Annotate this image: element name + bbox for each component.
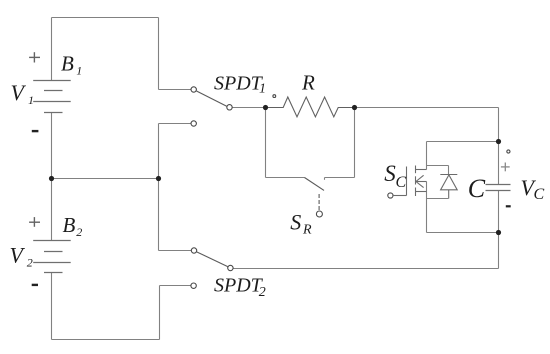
wire SR loop right vertical — [354, 108, 356, 178]
switch SR actuator dashed link — [318, 194, 320, 210]
battery B2 — [33, 241, 70, 273]
wire diode top drop — [448, 166, 450, 175]
diode anode stem — [448, 190, 450, 199]
wire B1 positive lead — [51, 18, 53, 81]
wire capacitor bottom lead — [498, 191, 500, 233]
wire SR loop left horizontal — [266, 177, 305, 179]
switch SPDT1 — [191, 87, 232, 126]
svg-text:C: C — [396, 174, 407, 191]
wire SR contact tick — [324, 178, 326, 180]
svg-text:1: 1 — [28, 93, 34, 107]
svg-text:C: C — [468, 174, 486, 203]
svg-text:1: 1 — [259, 81, 266, 96]
wire right corner drop — [498, 108, 500, 142]
SPDT2 blade — [196, 252, 228, 267]
mosfet SC — [393, 166, 427, 197]
wire box bottom — [427, 198, 449, 200]
diode cathode bar — [440, 174, 457, 176]
wire SPDT1 throw2 lead — [159, 123, 191, 125]
svg-text:2: 2 — [27, 256, 33, 270]
wire SR loop left vertical — [265, 108, 267, 178]
diode body — [441, 175, 458, 190]
switch SR actuator circle — [316, 211, 322, 217]
svg-text:S: S — [290, 209, 301, 234]
capacitor C plates — [486, 185, 511, 191]
svg-text:S: S — [384, 161, 396, 186]
label B1 plus sign — [29, 52, 40, 62]
switch SPDT2 — [191, 248, 233, 289]
svg-text:R: R — [301, 71, 315, 95]
node marker near capacitor — [507, 150, 510, 153]
svg-text:C: C — [534, 186, 545, 203]
wire subcircuit top rail — [427, 141, 499, 143]
switch SR blade — [305, 178, 325, 191]
wire B1 negative lead — [51, 113, 53, 179]
label capacitor plus sign — [501, 163, 510, 172]
wire top — [52, 17, 159, 19]
wire middle drop — [158, 124, 160, 251]
node marker near SPDT1 — [273, 95, 276, 98]
wire SPDT2 throw2 riser — [159, 286, 161, 340]
wire SPDT2 throw1 lead — [159, 250, 192, 252]
wire bottom — [52, 339, 160, 341]
wire main right — [355, 107, 499, 109]
wire SPDT1 throw1 lead — [159, 89, 191, 91]
svg-text:2: 2 — [76, 225, 82, 239]
svg-text:R: R — [302, 223, 312, 238]
wire cap to SPDT2 drop — [498, 233, 500, 269]
wire SR right contact — [325, 177, 355, 179]
wire drain riser — [426, 142, 428, 170]
wire B2 negative lead — [51, 273, 53, 340]
wire SPDT1 common lead — [232, 107, 266, 109]
svg-text:1: 1 — [76, 64, 82, 78]
wire box top — [427, 165, 449, 167]
wire SPDT2 throw2 lead — [160, 285, 192, 287]
wire B2 positive lead — [51, 179, 53, 241]
svg-text:SPDT: SPDT — [214, 73, 264, 95]
junction node dots — [49, 105, 501, 235]
svg-text:B: B — [63, 213, 76, 237]
label B1 minus sign — [32, 130, 39, 132]
svg-text:2: 2 — [259, 285, 266, 300]
wire capacitor top lead — [498, 142, 500, 185]
wire mosfet lower vertical — [426, 182, 428, 233]
svg-text:SPDT: SPDT — [214, 275, 264, 297]
label capacitor minus sign — [506, 205, 511, 207]
SPDT1 blade — [196, 91, 227, 106]
wire SPDT2 common run — [233, 268, 499, 270]
svg-text:B: B — [61, 52, 74, 76]
wire SPDT1 throw1 drop — [158, 18, 160, 90]
resistor R — [266, 97, 355, 117]
label B2 plus sign — [29, 217, 40, 227]
wire battery link — [52, 178, 159, 180]
wire subcircuit bottom rail — [427, 232, 499, 234]
label B2 minus sign — [32, 284, 38, 286]
mosfet SC gate circle — [388, 193, 393, 198]
battery B1 — [33, 81, 70, 113]
